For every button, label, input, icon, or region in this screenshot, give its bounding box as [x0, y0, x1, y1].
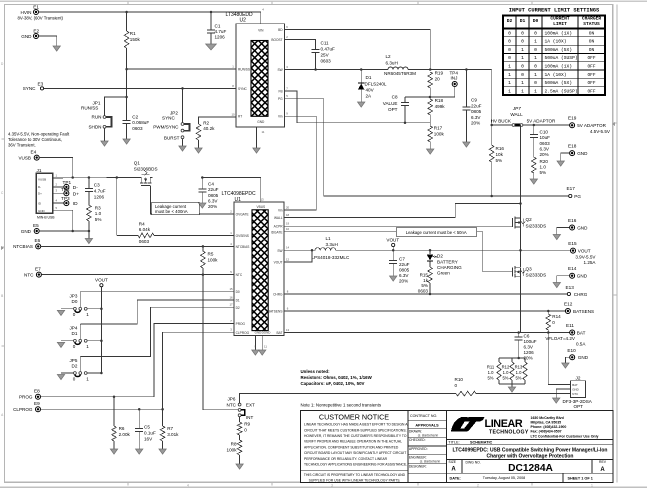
svg-text:5V ADAPTOR: 5V ADAPTOR [577, 123, 606, 128]
svg-text:3.01k: 3.01k [167, 432, 179, 437]
svg-text:Si2333DS: Si2333DS [526, 223, 547, 228]
svg-text:FB: FB [279, 90, 283, 94]
svg-text:2: 2 [477, 483, 479, 487]
svg-text:E18: E18 [568, 143, 577, 148]
svg-text:D-: D- [38, 185, 41, 189]
svg-text:CUSTOMER NOTICE: CUSTOMER NOTICE [319, 413, 389, 422]
svg-text:Resistors: Ohms, 0402, 1%, 1/1: Resistors: Ohms, 0402, 1%, 1/16W [301, 375, 373, 380]
svg-text:SHDN: SHDN [88, 124, 101, 129]
svg-text:0603: 0603 [132, 126, 143, 131]
svg-text:SYNC: SYNC [162, 116, 175, 121]
svg-text:D0: D0 [533, 18, 539, 24]
svg-text:500mA (5X): 500mA (5X) [545, 47, 573, 53]
svg-text:C3: C3 [94, 182, 100, 187]
svg-text:20: 20 [435, 77, 441, 82]
svg-text:5%: 5% [540, 170, 547, 175]
svg-text:100k: 100k [208, 257, 219, 262]
svg-text:NTCBIAS: NTCBIAS [13, 244, 33, 249]
svg-text:TECHNOLOGY: TECHNOLOGY [489, 429, 529, 435]
svg-text:LINEAR TECHNOLOGY HAS MADE A B: LINEAR TECHNOLOGY HAS MADE A BEST EFFORT… [304, 423, 408, 427]
svg-text:0: 0 [508, 47, 511, 53]
svg-text:must be < 400nA: must be < 400nA [155, 209, 188, 214]
svg-text:VOUT: VOUT [578, 248, 591, 253]
svg-text:WALL: WALL [510, 112, 523, 117]
svg-text:14: 14 [286, 246, 290, 250]
svg-text:APPROVALS: APPROVALS [415, 423, 439, 427]
svg-text:Charger with Overvoltage Prote: Charger with Overvoltage Protection [487, 454, 574, 460]
svg-text:D+: D+ [73, 192, 79, 198]
svg-text:E9: E9 [34, 401, 40, 406]
svg-text:PWM/SYNC: PWM/SYNC [153, 125, 179, 130]
svg-text:GND: GND [578, 355, 589, 360]
svg-text:LTC4099EPDC: USB Compatible Sw: LTC4099EPDC: USB Compatible Switching Po… [453, 447, 608, 453]
svg-text:Capacitors: uF, 0402, 10%, 5: Capacitors: uF, 0402, 10%, 50V [301, 381, 365, 386]
svg-text:E14: E14 [568, 266, 577, 271]
svg-text:SYNC: SYNC [238, 87, 248, 91]
svg-text:RUN/SS: RUN/SS [81, 106, 98, 111]
svg-text:E12: E12 [564, 301, 573, 306]
svg-text:CHECKED:: CHECKED: [409, 438, 426, 442]
svg-text:RUN/SS: RUN/SS [238, 68, 250, 72]
svg-text:6.3V: 6.3V [524, 345, 534, 350]
svg-text:VUSB: VUSB [38, 177, 46, 181]
svg-text:RUN: RUN [92, 115, 102, 120]
svg-text:E3: E3 [38, 81, 44, 86]
svg-text:D1: D1 [366, 75, 372, 80]
svg-text:Green: Green [437, 271, 450, 276]
svg-text:C2: C2 [132, 115, 138, 120]
svg-text:4: 4 [187, 483, 189, 487]
svg-text:C11: C11 [321, 40, 330, 45]
svg-text:DATE:: DATE: [450, 476, 461, 480]
svg-text:1: 1 [508, 64, 511, 70]
svg-text:A: A [451, 467, 456, 473]
svg-text:0: 0 [521, 39, 524, 45]
svg-text:R9: R9 [244, 421, 250, 426]
svg-text:BURST: BURST [164, 135, 180, 140]
svg-text:NTCBIAS: NTCBIAS [236, 245, 250, 249]
svg-text:SHEET 1 OF 1: SHEET 1 OF 1 [568, 476, 593, 480]
svg-text:0: 0 [534, 80, 537, 86]
svg-text:D2: D2 [437, 254, 443, 259]
svg-text:0: 0 [244, 427, 247, 432]
svg-text:25V: 25V [321, 53, 330, 58]
svg-text:E15: E15 [568, 241, 577, 246]
svg-text:E16: E16 [568, 218, 577, 223]
svg-text:Si2333DS: Si2333DS [526, 273, 547, 278]
svg-text:E1: E1 [33, 5, 39, 10]
svg-text:13: 13 [286, 328, 290, 332]
svg-text:1: 1 [521, 88, 524, 94]
svg-text:C10: C10 [540, 130, 549, 135]
svg-text:4.35V-5.5V, Non-operating Faul: 4.35V-5.5V, Non-operating Fault [8, 131, 70, 136]
svg-text:JP4: JP4 [70, 326, 78, 331]
svg-text:L1: L1 [326, 236, 332, 241]
svg-text:Phone: (408)432-1900: Phone: (408)432-1900 [531, 425, 567, 429]
svg-text:INJ: INJ [451, 76, 458, 81]
svg-text:R3: R3 [95, 206, 101, 211]
svg-text:E7: E7 [35, 266, 41, 271]
svg-text:1: 1 [534, 88, 537, 94]
svg-text:J2: J2 [576, 375, 581, 380]
svg-text:0: 0 [521, 30, 524, 36]
svg-text:19: 19 [286, 222, 290, 226]
svg-text:VUSB: VUSB [18, 155, 31, 160]
svg-text:R20: R20 [540, 159, 549, 164]
svg-text:100uF: 100uF [524, 339, 537, 344]
svg-text:20%: 20% [471, 121, 480, 126]
svg-text:1: 1 [508, 80, 511, 86]
svg-text:BAT: BAT [572, 383, 578, 387]
svg-text:OFF: OFF [587, 72, 595, 78]
svg-text:E5: E5 [33, 223, 39, 228]
svg-text:Q1: Q1 [134, 161, 141, 166]
svg-text:1.25A: 1.25A [583, 260, 596, 265]
svg-text:22uF: 22uF [399, 262, 410, 267]
svg-text:0: 0 [455, 383, 458, 388]
svg-text:E6: E6 [35, 238, 41, 243]
svg-text:VIN: VIN [258, 29, 264, 33]
svg-text:40.2k: 40.2k [203, 126, 215, 131]
svg-text:CLPROG: CLPROG [13, 407, 33, 412]
svg-text:CONTRACT NO.: CONTRACT NO. [410, 414, 437, 418]
svg-text:CURRENT: CURRENT [550, 16, 570, 22]
svg-text:BAT: BAT [577, 330, 586, 335]
svg-text:15: 15 [229, 287, 233, 291]
svg-text:1: 1 [534, 39, 537, 45]
svg-text:E2: E2 [33, 28, 39, 33]
svg-text:D2: D2 [72, 363, 78, 368]
svg-text:REV: REV [599, 460, 607, 464]
svg-text:C7: C7 [399, 256, 405, 261]
svg-text:0: 0 [521, 64, 524, 70]
svg-text:1: 1 [86, 376, 89, 381]
svg-text:JP5: JP5 [70, 358, 78, 363]
svg-text:DC1284A: DC1284A [508, 463, 553, 474]
svg-text:VOUT: VOUT [274, 261, 283, 265]
svg-text:DESIGNER:: DESIGNER: [409, 464, 427, 468]
svg-text:100mA (1X): 100mA (1X) [545, 30, 573, 36]
svg-text:18: 18 [286, 213, 290, 217]
svg-text:B: B [1, 294, 3, 298]
svg-text:TITLE:: TITLE: [448, 440, 459, 444]
svg-text:R15: R15 [420, 272, 429, 277]
svg-text:LINEAR: LINEAR [485, 418, 523, 430]
svg-text:DGND: DGND [262, 330, 272, 334]
svg-text:ACPR: ACPR [274, 225, 284, 229]
svg-text:0: 0 [552, 320, 555, 325]
svg-text:16: 16 [229, 295, 233, 299]
svg-text:L2: L2 [386, 54, 392, 59]
svg-text:R7: R7 [167, 426, 173, 431]
svg-text:1.0: 1.0 [503, 370, 509, 375]
svg-text:E8: E8 [34, 388, 40, 393]
svg-text:GND: GND [21, 229, 32, 234]
svg-text:OFF: OFF [587, 88, 595, 94]
svg-text:1A (10X): 1A (10X) [545, 72, 567, 78]
svg-text:GND: GND [577, 225, 588, 230]
svg-text:20%: 20% [540, 152, 549, 157]
svg-text:Tuesday, August 05, 2008: Tuesday, August 05, 2008 [483, 476, 525, 480]
svg-text:Tolerance to 30V Continous,: Tolerance to 30V Continous, [8, 137, 62, 142]
svg-text:1.0: 1.0 [95, 211, 102, 216]
svg-text:HOWEVER, IT REMAINS THE CUSTOM: HOWEVER, IT REMAINS THE CUSTOMER'S RESPO… [304, 434, 407, 438]
svg-text:DFLS240L: DFLS240L [365, 81, 387, 86]
svg-text:NTC: NTC [227, 402, 237, 407]
svg-text:OFF: OFF [587, 55, 595, 61]
svg-text:1k: 1k [423, 278, 429, 283]
svg-text:R5: R5 [208, 251, 214, 256]
svg-text:0603: 0603 [139, 239, 150, 244]
svg-text:Vin: Vin [278, 115, 283, 119]
svg-text:LIMIT: LIMIT [553, 21, 567, 27]
svg-text:VOUT: VOUT [386, 237, 399, 242]
svg-text:500uA (SUSP): 500uA (SUSP) [545, 55, 578, 61]
svg-text:ID: ID [73, 201, 78, 207]
svg-text:MIN-B USB: MIN-B USB [37, 215, 55, 219]
svg-text:Unless noted:: Unless noted: [301, 369, 331, 374]
svg-text:ON: ON [589, 39, 595, 45]
svg-text:1206: 1206 [215, 35, 226, 40]
svg-text:1: 1 [508, 72, 511, 78]
svg-text:1630 McCarthy Blvd: 1630 McCarthy Blvd [531, 416, 564, 420]
svg-text:0603: 0603 [321, 59, 332, 64]
svg-text:VOUT: VOUT [95, 278, 108, 283]
svg-text:PROG: PROG [19, 395, 33, 400]
svg-text:0: 0 [73, 312, 76, 317]
svg-text:E19: E19 [568, 116, 577, 121]
svg-text:Q3: Q3 [526, 267, 533, 272]
svg-text:C1: C1 [215, 23, 221, 28]
svg-text:0: 0 [508, 55, 511, 61]
svg-text:1206: 1206 [94, 195, 105, 200]
svg-text:JP6: JP6 [228, 397, 236, 402]
svg-text:APPLICATION. COMPONENT SUBSTI: APPLICATION. COMPONENT SUBSTITUTION AND … [304, 445, 399, 449]
svg-text:12: 12 [286, 257, 290, 261]
svg-text:G. Barbehenn: G. Barbehenn [418, 433, 439, 437]
svg-text:TP3: TP3 [61, 196, 70, 201]
svg-text:C6: C6 [524, 333, 530, 338]
svg-text:TP2: TP2 [61, 187, 70, 192]
svg-text:20%: 20% [399, 279, 408, 284]
svg-text:C4: C4 [208, 182, 214, 187]
svg-text:1: 1 [521, 47, 524, 53]
svg-text:CIRCUIT THAT MEETS CUSTOMER-SU: CIRCUIT THAT MEETS CUSTOMER-SUPPLIED SPE… [304, 428, 406, 432]
svg-text:R19: R19 [435, 70, 444, 75]
svg-text:3: 3 [331, 483, 333, 487]
svg-text:2A: 2A [366, 94, 373, 99]
svg-text:13: 13 [260, 197, 264, 201]
svg-text:C9: C9 [471, 98, 477, 103]
svg-text:D-: D- [73, 185, 78, 191]
svg-text:E13: E13 [566, 285, 575, 290]
svg-text:ON: ON [589, 47, 595, 53]
svg-text:10uF: 10uF [540, 135, 551, 140]
svg-text:PERFORMANCE OR RELIABILITY. C: PERFORMANCE OR RELIABILITY. CONTACT LINE… [304, 457, 388, 461]
svg-text:2.00k: 2.00k [119, 432, 131, 437]
svg-text:CHRG: CHRG [574, 292, 588, 297]
svg-text:R4: R4 [139, 222, 145, 227]
svg-text:GND: GND [21, 34, 32, 39]
svg-text:CIRCUIT BOARD LAYOUT MAY SIGNI: CIRCUIT BOARD LAYOUT MAY SIGNIFICANTLY A… [304, 451, 406, 455]
svg-text:5%: 5% [95, 217, 102, 222]
svg-text:C8: C8 [392, 94, 398, 99]
svg-text:1206: 1206 [524, 350, 535, 355]
svg-text:6.3uH: 6.3uH [386, 60, 398, 65]
svg-text:Milpitas, CA 95035: Milpitas, CA 95035 [531, 421, 562, 425]
svg-text:Leakage current must be < 50nA: Leakage current must be < 50nA [406, 230, 467, 235]
svg-text:5V ADAPTOR: 5V ADAPTOR [527, 119, 556, 124]
svg-text:R14: R14 [552, 314, 561, 319]
svg-text:U2: U2 [240, 18, 247, 24]
svg-text:EXT: EXT [246, 403, 255, 408]
svg-text:1: 1 [86, 344, 89, 349]
svg-text:NTC: NTC [24, 272, 34, 277]
svg-text:TECHNOLOGY APPLICATIONS ENGINE: TECHNOLOGY APPLICATIONS ENGINEERING FOR … [304, 463, 407, 467]
svg-text:0: 0 [73, 376, 76, 381]
svg-text:GND: GND [257, 120, 265, 124]
svg-text:INT: INT [246, 415, 254, 420]
svg-text:SUPPLIED FOR USE WITH LINEAR T: SUPPLIED FOR USE WITH LINEAR TECHNOLOGY … [309, 478, 401, 482]
svg-text:0: 0 [508, 30, 511, 36]
svg-text:INPUT CURRENT LIMIT SETTINGS: INPUT CURRENT LIMIT SETTINGS [509, 8, 600, 14]
svg-text:0805: 0805 [208, 193, 219, 198]
svg-text:0: 0 [534, 64, 537, 70]
svg-text:HV BUCK: HV BUCK [491, 119, 512, 124]
svg-text:OFF: OFF [587, 64, 595, 70]
svg-text:SIZE: SIZE [449, 460, 457, 464]
svg-text:PG: PG [278, 97, 283, 101]
svg-text:OPT: OPT [388, 107, 398, 112]
svg-text:Fax: (408)434-0507: Fax: (408)434-0507 [531, 430, 562, 434]
svg-text:BOOST: BOOST [271, 38, 282, 42]
svg-text:10k: 10k [496, 152, 504, 157]
svg-text:CHARGER: CHARGER [582, 16, 602, 22]
svg-text:VBUS: VBUS [256, 205, 265, 209]
svg-text:150k: 150k [130, 37, 141, 42]
svg-text:THIS CIRCUIT IS PROPRIETARY TO: THIS CIRCUIT IS PROPRIETARY TO LINEAR TE… [304, 473, 406, 477]
svg-text:0805: 0805 [399, 268, 410, 273]
svg-text:0: 0 [534, 30, 537, 36]
svg-text:1.0: 1.0 [488, 370, 494, 375]
svg-text:0: 0 [508, 39, 511, 45]
svg-text:SW: SW [277, 249, 282, 253]
svg-text:11: 11 [264, 345, 267, 349]
svg-text:LTC Confidential-For Customer: LTC Confidential-For Customer Use Only [531, 435, 599, 439]
svg-text:5%: 5% [502, 376, 508, 381]
svg-text:GND: GND [577, 151, 588, 156]
svg-text:BATTERY: BATTERY [437, 259, 458, 264]
svg-text:IDGATE: IDGATE [271, 230, 283, 234]
svg-text:VALUE: VALUE [383, 101, 398, 106]
svg-text:D2: D2 [236, 306, 240, 310]
svg-text:6.3V: 6.3V [399, 273, 409, 278]
svg-text:1: 1 [591, 483, 593, 487]
svg-text:D1: D1 [72, 331, 78, 336]
svg-text:5%: 5% [496, 158, 503, 163]
svg-text:OVGATE: OVGATE [236, 213, 249, 217]
svg-text:Note 1: Nonrepetitive 1 second: Note 1: Nonrepetitive 1 second transient… [301, 403, 382, 408]
svg-text:E17: E17 [567, 186, 576, 191]
svg-text:SW: SW [277, 68, 282, 72]
svg-text:BD: BD [278, 28, 283, 32]
svg-text:JP7: JP7 [512, 106, 521, 111]
svg-text:D2: D2 [507, 18, 513, 24]
svg-text:0603: 0603 [540, 141, 551, 146]
svg-text:D+: D+ [38, 192, 42, 196]
svg-text:VFLOAT=4.2V: VFLOAT=4.2V [545, 336, 576, 341]
svg-text:VERIFY PROPER AND RELIABLE OPE: VERIFY PROPER AND RELIABLE OPERATION IN … [304, 440, 402, 444]
svg-text:NR6045T6R3M: NR6045T6R3M [384, 71, 416, 76]
svg-text:BATSENS: BATSENS [268, 310, 283, 314]
svg-text:RT: RT [238, 115, 242, 119]
svg-text:1: 1 [521, 55, 524, 61]
svg-text:10: 10 [231, 113, 235, 117]
svg-text:STATUS: STATUS [583, 21, 600, 27]
svg-text:C5: C5 [144, 424, 150, 429]
svg-text:PG: PG [574, 194, 581, 199]
svg-text:R13: R13 [515, 364, 523, 369]
svg-text:NTC: NTC [236, 273, 243, 277]
svg-text:0.1uF: 0.1uF [144, 430, 156, 435]
svg-text:J1: J1 [37, 168, 42, 173]
svg-text:D1: D1 [520, 18, 526, 24]
svg-text:SYNC: SYNC [23, 86, 36, 91]
svg-text:20%: 20% [208, 204, 217, 209]
svg-text:22uF: 22uF [208, 187, 219, 192]
svg-text:4.5V-5.5V: 4.5V-5.5V [590, 129, 611, 134]
svg-text:WALL: WALL [274, 216, 283, 220]
svg-text:CHRG: CHRG [273, 293, 283, 297]
svg-text:PROG: PROG [236, 322, 246, 326]
svg-text:BAT: BAT [277, 331, 283, 335]
svg-text:0.5A: 0.5A [576, 342, 586, 347]
svg-text:100mA (1X): 100mA (1X) [545, 64, 573, 70]
svg-text:OPT: OPT [574, 404, 584, 409]
svg-text:GND: GND [38, 209, 46, 213]
svg-text:R17: R17 [434, 126, 443, 131]
svg-text:1.0: 1.0 [540, 165, 547, 170]
svg-text:R2: R2 [203, 121, 209, 126]
svg-text:R16: R16 [496, 146, 505, 151]
svg-text:17: 17 [229, 303, 233, 307]
svg-text:1: 1 [86, 312, 89, 317]
svg-text:Vin: Vin [278, 209, 283, 213]
svg-text:40V: 40V [366, 87, 375, 92]
svg-text:D0: D0 [236, 290, 240, 294]
svg-text:LPS4018-332MLC: LPS4018-332MLC [312, 255, 350, 260]
svg-text:16V: 16V [144, 436, 153, 441]
svg-text:CLPROG: CLPROG [236, 331, 250, 335]
svg-text:E4: E4 [31, 149, 37, 154]
svg-text:R6: R6 [119, 426, 125, 431]
svg-text:Q2: Q2 [526, 217, 533, 222]
svg-text:100k: 100k [434, 132, 445, 137]
svg-text:1: 1 [534, 55, 537, 61]
svg-text:E11: E11 [566, 323, 574, 328]
svg-text:R1: R1 [130, 31, 136, 36]
svg-text:1: 1 [521, 80, 524, 86]
svg-text:A: A [600, 467, 605, 473]
svg-text:R12: R12 [502, 364, 510, 369]
svg-text:5%: 5% [487, 376, 493, 381]
svg-text:499k: 499k [435, 104, 446, 109]
svg-text:22uF: 22uF [471, 103, 482, 108]
svg-text:6.3V: 6.3V [471, 115, 481, 120]
svg-text:0805: 0805 [471, 109, 482, 114]
svg-text:36V Transient.: 36V Transient. [8, 143, 36, 148]
svg-text:1: 1 [534, 72, 537, 78]
